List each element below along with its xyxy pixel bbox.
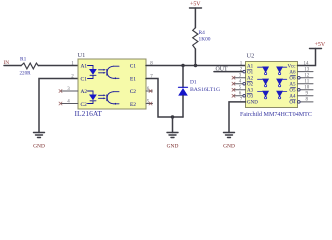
U2 pin 7 wire to ground bbox=[229, 102, 246, 133]
U2 output bubble O1 bbox=[243, 70, 246, 73]
U1 pin 5 bbox=[146, 103, 153, 105]
svg-text:U2: U2 bbox=[247, 53, 255, 60]
svg-text:1K00: 1K00 bbox=[199, 36, 211, 42]
svg-text:13: 13 bbox=[304, 67, 310, 72]
svg-text:O5: O5 bbox=[289, 89, 296, 94]
U2 pin 4 bbox=[234, 83, 244, 85]
U2 pin 11 bbox=[298, 83, 314, 85]
U1 pin 3 bbox=[61, 90, 78, 92]
svg-text:GND: GND bbox=[247, 101, 258, 106]
U2 pin 12 bbox=[300, 77, 313, 79]
svg-text:220R: 220R bbox=[20, 70, 32, 76]
svg-text:A4: A4 bbox=[289, 95, 296, 100]
svg-text:U1: U1 bbox=[78, 52, 86, 59]
U2 inverter gates bbox=[258, 67, 287, 99]
svg-text:GND: GND bbox=[223, 144, 235, 150]
U2 output bubble O2 bbox=[243, 82, 246, 85]
U2 output bubble O3 bbox=[243, 95, 246, 98]
svg-text:O3: O3 bbox=[247, 95, 254, 100]
svg-text:E1: E1 bbox=[130, 76, 136, 82]
svg-text:R4: R4 bbox=[199, 30, 206, 36]
svg-text:D1: D1 bbox=[190, 79, 197, 85]
svg-text:Vcc: Vcc bbox=[287, 64, 296, 69]
U1 channel 2 internals bbox=[88, 91, 120, 104]
svg-text:10: 10 bbox=[304, 86, 310, 91]
svg-text:C2: C2 bbox=[130, 89, 137, 95]
U2 pin 3 bbox=[234, 77, 246, 79]
svg-text:+5V: +5V bbox=[315, 42, 326, 48]
U2 pin 14 wire to +5V bbox=[298, 49, 316, 66]
svg-text:A6: A6 bbox=[289, 70, 296, 75]
svg-text:A2: A2 bbox=[247, 77, 254, 82]
U2 output bubble O6 bbox=[298, 76, 301, 79]
svg-text:IL216AT: IL216AT bbox=[75, 109, 103, 118]
svg-text:14: 14 bbox=[304, 61, 310, 66]
svg-text:11: 11 bbox=[304, 80, 309, 85]
svg-text:C1: C1 bbox=[130, 63, 137, 69]
no-ERC X on U1 pin 5 bbox=[149, 102, 152, 105]
junction at ground stem bbox=[171, 115, 174, 118]
U2 pin 9 bbox=[298, 95, 314, 97]
wire U1 pin8 to U2 pin1 bbox=[146, 65, 246, 67]
no-ERC X on U1 pin 4 bbox=[59, 102, 62, 105]
wire U1 pin7 to diode anode bbox=[146, 79, 183, 118]
U2 output bubble O4 bbox=[298, 101, 301, 104]
U2 pin 13 bbox=[298, 71, 314, 73]
svg-text:Fairchild MM74HCT04MTC: Fairchild MM74HCT04MTC bbox=[240, 112, 312, 118]
svg-text:A1: A1 bbox=[81, 63, 88, 69]
svg-text:O2: O2 bbox=[247, 83, 254, 88]
wire U1 pin2 to ground bbox=[39, 79, 78, 133]
ground (right) bbox=[224, 133, 235, 138]
svg-text:12: 12 bbox=[304, 74, 310, 79]
wire R1 to U1 pin1 bbox=[38, 65, 78, 67]
svg-text:GND: GND bbox=[167, 144, 179, 150]
wire OUT to U2 pin2 bbox=[214, 71, 244, 73]
resistor R4 bbox=[193, 28, 198, 49]
ground (middle) bbox=[167, 133, 178, 138]
svg-text:A5: A5 bbox=[289, 83, 296, 88]
no-ERC X on U1 pin 3 bbox=[59, 90, 62, 93]
svg-text:R1: R1 bbox=[20, 56, 27, 62]
optocoupler U1 body bbox=[78, 59, 146, 109]
diode D1 bbox=[182, 66, 184, 88]
U1 pin 4 bbox=[61, 103, 78, 105]
svg-text:E2: E2 bbox=[130, 102, 136, 108]
wire R4 to node bbox=[194, 49, 196, 66]
U2 pin 5 bbox=[234, 89, 246, 91]
U2 interior labels right bbox=[287, 64, 296, 105]
hex inverter U2 body bbox=[246, 62, 298, 108]
U2 pin 8 bbox=[300, 101, 313, 103]
junction diode top bbox=[181, 64, 184, 67]
junction R4 bottom bbox=[194, 64, 197, 67]
svg-text:A1: A1 bbox=[247, 64, 254, 69]
svg-text:+5V: +5V bbox=[190, 2, 201, 8]
no-ERC X on U1 pin 6 bbox=[149, 90, 152, 93]
svg-text:C1: C1 bbox=[81, 76, 88, 82]
resistor R1 bbox=[21, 63, 38, 69]
U2 interior labels left bbox=[247, 64, 258, 105]
svg-text:C2: C2 bbox=[81, 102, 88, 108]
svg-text:O1: O1 bbox=[247, 70, 254, 75]
svg-text:GND: GND bbox=[33, 144, 45, 150]
svg-text:BAS16LT1G: BAS16LT1G bbox=[190, 87, 220, 93]
U2 output bubble O5 bbox=[298, 89, 301, 92]
U1 pin 6 bbox=[146, 90, 153, 92]
U2 pin 10 bbox=[300, 89, 313, 91]
svg-text:A3: A3 bbox=[247, 89, 254, 94]
wire IN to R1 bbox=[4, 65, 21, 67]
wire to middle ground bbox=[172, 117, 174, 133]
svg-text:A2: A2 bbox=[81, 89, 88, 95]
U1 channel 1 internals bbox=[88, 66, 120, 79]
U2 pin 6 bbox=[234, 95, 244, 97]
svg-text:O4: O4 bbox=[289, 101, 296, 106]
ground (left) bbox=[34, 133, 45, 138]
svg-text:O6: O6 bbox=[289, 77, 296, 82]
